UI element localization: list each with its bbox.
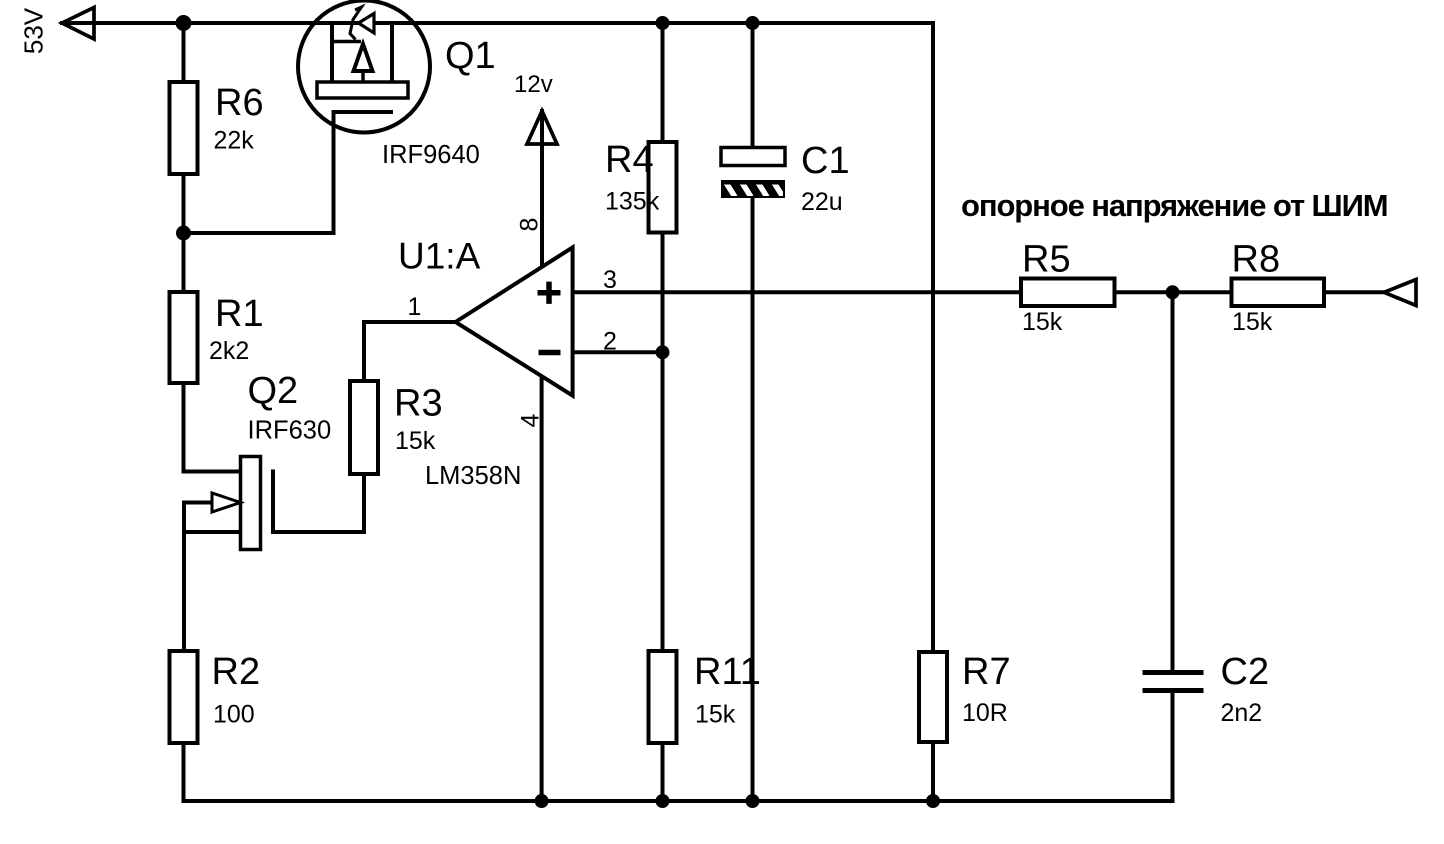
svg-text:4: 4 [517,413,545,427]
wire top rail 53V [62,23,933,652]
svg-text:2n2: 2n2 [1221,699,1263,727]
capacitor C2 [1143,651,1270,727]
svg-text:R11: R11 [694,651,761,693]
transistor Q2 [212,457,261,550]
wire R7 bottom lead [931,742,935,801]
resistor R4 [605,139,677,233]
svg-text:C2: C2 [1221,651,1270,693]
node dot R4 top [656,16,670,30]
svg-text:R1: R1 [215,293,264,335]
wire R5 to R8 [1115,290,1232,294]
svg-text:8: 8 [516,218,544,232]
svg-text:10R: 10R [962,699,1008,727]
node dot C1 top [746,16,760,30]
svg-text:Q2: Q2 [248,370,299,412]
wire R11 bottom lead [661,743,665,801]
svg-text:15k: 15k [695,701,736,729]
resistor R7 [919,651,1011,742]
wire R4 top lead [661,23,665,142]
svg-text:2k2: 2k2 [209,337,249,365]
power flag 12v arrow [527,111,557,144]
svg-text:53V: 53V [18,7,48,54]
wire bottom rail [184,799,1173,803]
wire R2 bottom lead [182,743,186,801]
svg-text:3: 3 [603,266,617,294]
node dot pin 2 [656,345,670,359]
wire R6 to R1 [182,174,186,292]
resistor R5 [1021,239,1115,337]
wire op-amp pin 2 to node [573,350,663,354]
resistor R3 [350,381,443,474]
wire op-amp pin 4 to bottom rail [540,377,544,801]
wire R3 bottom to Q2 gate line [273,472,364,533]
wire C2 branch [1171,292,1175,801]
node dot C1 bottom [746,794,760,808]
svg-text:Q1: Q1 [445,35,496,77]
wire Q1 gate to node A [184,112,334,233]
wire R4 to R11 [661,233,665,652]
svg-text:R5: R5 [1022,239,1071,281]
wire R8 to terminal [1324,290,1384,294]
wire Q2 gate stub down to R2 [184,503,212,652]
wire op-amp pin 1 to R3 top [364,322,456,381]
svg-text:U1:A: U1:A [398,236,481,277]
svg-text:1: 1 [408,293,422,321]
svg-text:R6: R6 [215,82,264,124]
svg-text:IRF630: IRF630 [248,417,332,445]
svg-text:C1: C1 [801,140,850,182]
svg-text:LM358N: LM358N [425,462,521,490]
svg-text:опорное напряжение от ШИМ: опорное напряжение от ШИМ [961,188,1388,223]
svg-text:22k: 22k [214,127,255,155]
svg-text:22u: 22u [801,188,843,216]
wire C1 top lead [751,23,755,148]
svg-text:15k: 15k [395,427,436,455]
resistor R2 [170,651,261,743]
node dot R7 bottom [926,794,940,808]
resistor R8 [1232,239,1325,337]
svg-text:12v: 12v [514,71,553,98]
power flag 53V arrow [62,8,94,40]
wire C1 bottom lead [751,198,755,801]
wire op-amp pin 3 to R5 [573,290,1021,294]
resistor R6 [170,82,264,174]
op-amp U1:A [398,218,617,490]
node dot R6/R1/Q1 gate [176,226,191,241]
node dot R11 bottom [656,794,670,808]
svg-text:100: 100 [213,701,255,729]
resistor R11 [649,651,761,743]
svg-text:2: 2 [603,328,617,356]
node dot top-left [176,15,192,31]
wire Q2 source line [184,530,241,534]
wire R6 top lead [182,23,186,82]
capacitor C1 [721,140,850,216]
svg-text:R2: R2 [212,651,261,693]
svg-text:IRF9640: IRF9640 [382,141,480,169]
wire R1 bottom to Q2 drain [184,383,241,472]
wire 12v to op-amp pin 8 [540,111,544,268]
svg-text:R7: R7 [962,651,1011,693]
terminal arrow right (PWM input) [1384,280,1416,306]
svg-text:15k: 15k [1232,308,1273,336]
node dot R5/R8/C2 [1166,285,1180,299]
node dot pin4 bottom [535,794,549,808]
svg-text:R3: R3 [394,383,443,425]
svg-text:R4: R4 [605,139,654,181]
transistor Q1 [298,1,430,133]
svg-text:R8: R8 [1232,239,1281,281]
resistor R1 [170,292,264,383]
svg-text:135k: 135k [605,188,660,216]
svg-text:15k: 15k [1022,308,1063,336]
